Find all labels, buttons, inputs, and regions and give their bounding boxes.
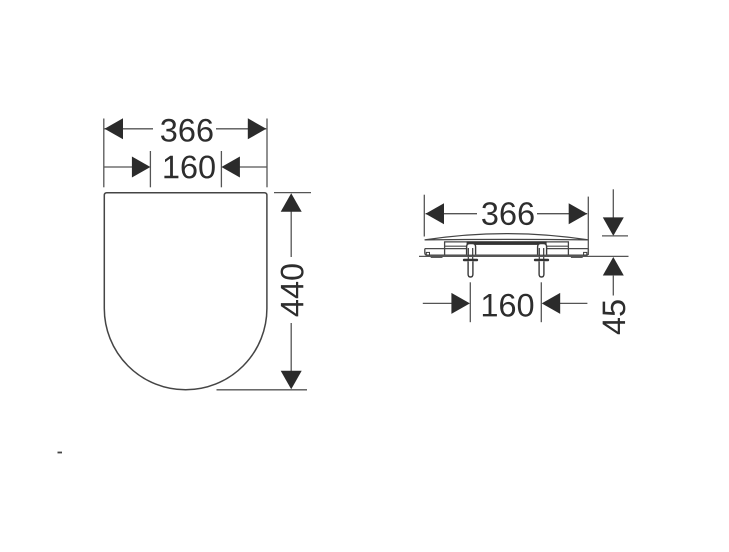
bolt shaft right slot <box>541 262 543 274</box>
washer right <box>534 259 549 262</box>
dim 366 left: dimension line <box>105 128 154 130</box>
arrows <box>105 118 124 139</box>
bolt shaft left slot <box>470 262 472 274</box>
bolt neck left <box>467 248 469 259</box>
arrows <box>281 193 302 212</box>
tails <box>423 302 452 304</box>
washer left <box>463 259 478 262</box>
dim 440: extension lines <box>274 192 311 194</box>
bowl line <box>419 255 629 257</box>
dim 440: line segments <box>290 211 292 257</box>
lid lens profile <box>425 234 589 240</box>
dim 160 right: extension ticks <box>469 282 471 322</box>
bolt neck right <box>538 248 540 259</box>
arrows <box>132 157 151 178</box>
end blocks <box>426 252 429 255</box>
ring bottom outline <box>425 249 589 256</box>
dim 366 left: extension lines <box>103 119 105 188</box>
stray dash bottom left <box>58 452 63 454</box>
text 366 <box>161 119 213 142</box>
bolt shaft right <box>539 261 544 277</box>
dim 366 right: extension lines <box>423 195 425 237</box>
band mid line <box>445 245 468 247</box>
ring mid line full width <box>425 248 468 250</box>
up arrow + tail <box>603 257 624 276</box>
dim 45: top tail + down arrow <box>612 189 614 218</box>
dim line <box>426 213 478 215</box>
feet strips <box>431 256 443 258</box>
dim 160 left: tails <box>104 166 132 168</box>
raised band between steps <box>445 242 569 255</box>
seat top view outline <box>104 193 267 390</box>
bolt shaft left <box>468 261 473 277</box>
text 45 rotated <box>603 300 626 334</box>
thick bar between hinges <box>467 241 547 245</box>
hinge cap right <box>538 244 547 255</box>
text 440 rotated <box>281 264 304 316</box>
text 160 <box>164 156 214 179</box>
dim 160 left: extension ticks <box>149 151 151 187</box>
hinge cap left <box>467 244 476 255</box>
